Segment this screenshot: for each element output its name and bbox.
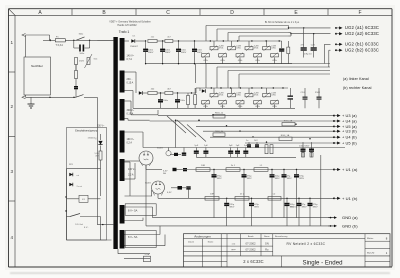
svg-text:5U4G: 5U4G (157, 147, 163, 149)
diode D7 (139, 91, 148, 95)
bus U-line 3 (196, 125, 334, 127)
bus trimmer b bottom (161, 107, 296, 109)
junction f2 (160, 92, 161, 93)
svg-text:GND (b): GND (b) (342, 224, 358, 229)
title block h-line 4 (184, 255, 391, 257)
trimmer Pb lower 2 (219, 100, 227, 109)
wire fuse to trafo (65, 39, 113, 41)
wire tube V1 gnd (145, 165, 147, 226)
resistor R20 (194, 88, 197, 108)
diode LED1 (67, 169, 80, 182)
junction bus a 3 (251, 40, 252, 41)
svg-text:erst: erst (232, 242, 236, 245)
wire delay to trafo (100, 217, 102, 241)
title block v-lines (203, 234, 366, 268)
bus merge a1 (288, 26, 331, 30)
junction delay bottom (65, 210, 66, 211)
svg-text:Bearb: Bearb (248, 235, 254, 238)
svg-text:630V: 630V (181, 52, 187, 54)
capacitor Cm3 (203, 145, 208, 157)
wire seg4 tap (125, 132, 144, 148)
output arrow + U5 (b) (333, 141, 340, 144)
svg-text:RG2_1A: RG2_1A (284, 120, 293, 123)
switch S2 on mains (76, 37, 85, 40)
wire heater a2 (125, 218, 144, 221)
svg-text:UG2 (a2) 6C33C: UG2 (a2) 6C33C (345, 31, 379, 36)
junction u1 (175, 120, 176, 121)
resistor Rm4 (310, 153, 313, 158)
capacitor Ca end (279, 48, 284, 63)
resistor Ra2 (226, 164, 240, 172)
svg-text:Trafo 1: Trafo 1 (119, 30, 130, 34)
transformer secondary winding S3 (120, 99, 125, 121)
diode D4 (200, 88, 205, 93)
label 140V chain (0, 0, 1, 1)
resistor R3 (94, 146, 102, 161)
trimmer Pb lower 4 (254, 100, 262, 109)
junction bus a 4 (266, 40, 267, 41)
capacitor C12 chain a (176, 41, 187, 64)
wire switch to corner (84, 96, 97, 98)
svg-text:+ U4 (b): + U4 (b) (342, 135, 357, 140)
svg-text:2x rot: 2x rot (77, 185, 83, 188)
transformer secondary winding S1 (120, 38, 125, 61)
junction bus a 1 (223, 40, 224, 41)
svg-text:RG3_1k: RG3_1k (215, 131, 224, 133)
svg-text:6 V~: 6 V~ (84, 227, 89, 229)
trimmer Pa upper 1 (210, 41, 224, 51)
svg-text:1N4007: 1N4007 (130, 46, 138, 48)
capacitor Cb2 (315, 88, 322, 108)
output arrow GND b (328, 225, 337, 228)
svg-text:100n: 100n (79, 53, 85, 55)
svg-text:mKp 10: mKp 10 (304, 53, 312, 55)
winding label 230V (127, 78, 134, 85)
svg-text:+ U5 (b): + U5 (b) (342, 140, 357, 145)
mains filter box Netzfilter (24, 57, 51, 95)
transformer secondary winding S7 (120, 230, 125, 249)
resistor Rb2 (235, 193, 249, 201)
trimmer Pb upper 3 (245, 88, 259, 98)
junction a (73, 40, 74, 41)
wire seg3 tap top (125, 101, 159, 115)
svg-text:(a) linker Kanal: (a) linker Kanal (343, 77, 369, 81)
wire mains lower (26, 96, 76, 98)
output arrow + U5 (a) (333, 125, 340, 128)
svg-text:385V: 385V (275, 178, 281, 180)
svg-text:D: D (230, 10, 234, 16)
bus UG2a4 (239, 36, 289, 41)
junction b4 (251, 87, 252, 88)
cap C2 (74, 86, 78, 89)
title block h-line 3 (184, 251, 273, 253)
junction relay (65, 196, 66, 197)
bus GND b (146, 225, 335, 227)
capacitor C11 chain a (160, 41, 171, 64)
title block right col lines (365, 241, 390, 261)
wire delay v2 (66, 196, 68, 226)
bus trimmer a bottom (200, 63, 292, 65)
output arrow UG2 a2 (335, 32, 342, 35)
column divider 2 (135, 9, 137, 16)
bus UG2a1 (206, 26, 289, 42)
svg-text:RV Netzteil 2 x 6C33C: RV Netzteil 2 x 6C33C (287, 242, 326, 246)
junction b5 (261, 87, 262, 88)
output arrow + U4 (a) (333, 119, 340, 122)
trimmer Pb lower 3 (236, 100, 244, 109)
trimmer Pb upper 2 (228, 88, 242, 98)
junction d (73, 97, 74, 98)
junction bus a 0 (210, 40, 211, 41)
svg-text:Einschaltverzögerung: Einschaltverzögerung (75, 130, 98, 133)
capacitor Ca 296.5 (294, 169, 305, 218)
title block h-line 5 (184, 260, 228, 262)
capacitor Cn1 (246, 140, 251, 147)
capacitor C10 chain a (143, 41, 154, 64)
resistor R22 (165, 88, 173, 94)
wire right riser (96, 97, 98, 224)
bus GND a (153, 217, 335, 219)
resistor R2b (75, 61, 85, 79)
junction b3 (240, 87, 241, 88)
svg-text:Name: Name (264, 236, 270, 238)
svg-text:385V: 385V (247, 178, 253, 180)
junction b7 (282, 87, 283, 88)
wire bus a drop (195, 64, 197, 83)
output arrow UG2 b1 (335, 43, 342, 46)
capacitor Cbx 287 (285, 198, 296, 226)
svg-text:07-2002: 07-2002 (245, 242, 256, 246)
svg-text:385V: 385V (254, 207, 260, 209)
svg-text:C: C (166, 10, 170, 16)
heater labels a (163, 170, 168, 175)
junction e1 (145, 40, 146, 41)
svg-text:385V: 385V (313, 207, 319, 209)
svg-text:Netzfilter: Netzfilter (31, 64, 43, 68)
wire cap to lower (75, 89, 77, 97)
svg-text:0,15 A: 0,15 A (127, 82, 134, 85)
svg-text:140 V~: 140 V~ (127, 55, 135, 58)
output arrow U1 a (333, 168, 340, 171)
diagonal wire 2 (177, 120, 196, 137)
svg-text:3: 3 (11, 169, 14, 174)
wire seg2 rise to bus (195, 88, 197, 93)
paper edge shadow (10, 272, 390, 274)
svg-text:385V: 385V (217, 178, 223, 180)
bus U-line 2 (150, 120, 334, 122)
capacitor C21 (311, 33, 317, 58)
riser u net 2 (175, 120, 177, 147)
title block h-line 1 (184, 238, 366, 240)
column divider 3 (199, 9, 201, 16)
wire box bottom left (25, 95, 27, 97)
svg-text:8 V~ 5A: 8 V~ 5A (128, 235, 138, 239)
bus chain mid (143, 147, 345, 149)
winding label 100V (128, 168, 136, 177)
wire mains upper (26, 34, 50, 36)
wire trafo bottom 1 (118, 253, 150, 255)
wire delay v1 (100, 160, 102, 196)
trimmer Pb lower 1 (202, 100, 210, 109)
column divider 5 (327, 9, 329, 16)
switch S1 (76, 95, 84, 98)
resistor R10 (148, 36, 157, 42)
capacitor Cbx 251.5 (249, 198, 260, 226)
svg-text:(+): (+) (95, 138, 98, 140)
bus UG2b3 (228, 71, 330, 89)
svg-text:10R: 10R (201, 165, 205, 167)
resistor R11 (165, 36, 173, 42)
wire delay across (67, 239, 112, 241)
svg-text:Bezeichnung: Bezeichnung (275, 236, 288, 238)
svg-text:8 V~ 5A: 8 V~ 5A (128, 208, 138, 212)
svg-text:230...: 230... (127, 78, 133, 81)
svg-text:UG2 (b1) 6C33C: UG2 (b1) 6C33C (345, 42, 379, 47)
wire f2 (157, 92, 165, 94)
wire heater a1 (125, 206, 153, 208)
heater labels b (167, 192, 172, 194)
wire delay h1 (67, 168, 101, 170)
svg-text:2 x 6C33C: 2 x 6C33C (243, 259, 263, 264)
junction bus a 2 (237, 40, 238, 41)
svg-text:Änderungen: Änderungen (194, 235, 211, 239)
svg-text:100n 630V: 100n 630V (299, 145, 310, 147)
capacitor Cf2 (175, 93, 186, 108)
wire seg2 tap bottom (125, 91, 161, 109)
capacitor Ca 214 (212, 169, 223, 218)
diagonal wire 1 (167, 116, 186, 133)
bus UG2b4 (239, 74, 330, 88)
capacitor Cm1 (182, 148, 186, 156)
wire riser left (25, 35, 27, 57)
svg-text:+ U3 (a): + U3 (a) (342, 113, 357, 118)
junction b6 (273, 87, 274, 88)
trimmer Pa lower 1 (202, 53, 210, 64)
primary bottom junction (102, 224, 103, 225)
tube V2 (152, 181, 165, 196)
capacitor Cm7 (299, 142, 310, 157)
wire tube V2 anode (125, 162, 153, 196)
resistor RG3 (282, 120, 295, 126)
bus UG2b2 (217, 67, 330, 88)
resistor R21 (148, 88, 157, 94)
capacitor Ca 284 (282, 169, 293, 218)
fuse F1 (55, 37, 65, 42)
tube V1 cathode wire (146, 165, 162, 170)
junction c (49, 97, 50, 98)
svg-text:Datum: Datum (188, 240, 194, 243)
junction dots U-lines (198, 114, 310, 143)
relay coil Rel1 (79, 195, 88, 202)
capacitor Cb pair (186, 186, 190, 198)
wire to fuse (43, 39, 55, 41)
junction b (89, 40, 90, 41)
bus chain mid bottom (196, 156, 296, 158)
capacitor Cbx 226.7 (224, 198, 235, 226)
capacitor C13 chain a (192, 41, 203, 64)
row divider 1 (9, 71, 16, 73)
svg-text:0,15 A: 0,15 A (127, 113, 134, 116)
svg-text:300 V~: 300 V~ (127, 109, 135, 112)
resistor RG4 (279, 134, 292, 140)
title block h-line 2 (184, 245, 273, 247)
wire heater b2 (125, 235, 166, 246)
winding label 190V (127, 138, 135, 145)
wire delay bottom (66, 226, 68, 240)
svg-text:gepr: gepr (231, 248, 235, 251)
junction b1 (220, 87, 221, 88)
wire e2 (157, 40, 165, 42)
transformer secondary winding S6 (120, 205, 125, 224)
varistor arrow (85, 54, 99, 68)
capacitor Cm8 (309, 142, 314, 157)
bus UG2b1 (206, 64, 330, 89)
svg-text:100n: 100n (180, 100, 186, 102)
inductor Lb1 (268, 194, 281, 201)
ground symbol (28, 104, 35, 108)
heater fuse box (144, 253, 151, 262)
svg-text:1kV: 1kV (254, 140, 258, 142)
trimmer Pb lower 5 (271, 100, 279, 109)
bus chain a bottom (145, 63, 207, 64)
svg-text:Blatt-Nr:: Blatt-Nr: (367, 251, 375, 254)
resistor RG1 (213, 112, 225, 118)
svg-text:Bl. 66 mit Schalter ab ca. 2 x: Bl. 66 mit Schalter ab ca. 2 x 3 µs (265, 21, 300, 24)
title text Blaetter (367, 237, 388, 241)
transformer secondary winding S5 (120, 159, 125, 181)
junction fuse in (49, 39, 51, 41)
svg-text:10R: 10R (210, 194, 214, 196)
svg-text:GN: GN (265, 242, 269, 246)
svg-text:630V: 630V (165, 52, 171, 54)
svg-text:4: 4 (11, 235, 14, 240)
resistor RG2 (213, 131, 225, 136)
primary tap wire top (97, 39, 113, 41)
wire seg2 tap top (125, 71, 137, 73)
winding label 8V a (125, 204, 156, 216)
wire f3 (173, 92, 196, 94)
diode LED2 (67, 182, 83, 196)
junction b2 (230, 87, 231, 88)
diode D5 (170, 153, 181, 156)
chain a components left (173, 168, 188, 172)
svg-text:Netz: Netz (79, 33, 84, 36)
bus trimmer b top (200, 87, 288, 89)
trimmer Pa upper 3 (245, 41, 259, 51)
svg-text:6,3V: 6,3V (167, 192, 172, 194)
wire chain a corner (281, 41, 283, 48)
svg-text:Name: Name (208, 241, 214, 243)
svg-text:105 Grd: 105 Grd (75, 224, 84, 226)
mains connector arrows (22, 34, 26, 99)
diode D3 (130, 36, 145, 48)
svg-text:(b) rechter Kanal: (b) rechter Kanal (343, 86, 372, 90)
output arrow GND a (328, 216, 337, 219)
trimmer Pa upper 4 (263, 41, 277, 51)
capacitor Cm5 (235, 145, 240, 157)
column divider 4 (263, 9, 265, 16)
capacitor Cm6 (243, 145, 248, 157)
capacitor Cm2 (194, 145, 199, 157)
svg-text:385V: 385V (299, 178, 305, 180)
capacitor Cn2 (254, 140, 259, 147)
bus chain U1b (166, 197, 335, 199)
wire e3 (173, 40, 200, 42)
wire cap drop (75, 79, 77, 87)
svg-text:Ro: Ro (265, 247, 269, 251)
svg-text:+ U4 (a): + U4 (a) (342, 118, 357, 123)
svg-text:0,7 A: 0,7 A (127, 58, 133, 61)
wire heater riser b (159, 226, 161, 235)
diode D6 (171, 186, 186, 190)
svg-text:385V: 385V (302, 207, 308, 209)
svg-text:230 V~: 230 V~ (97, 126, 105, 128)
tube V2 cathode wire (158, 194, 166, 198)
relay contact (67, 214, 101, 217)
capacitor Ca 244 (242, 169, 253, 218)
svg-text:F: F (358, 10, 361, 16)
svg-text:385V: 385V (229, 207, 235, 209)
inductor La1 (254, 165, 268, 172)
svg-text:RG6_1A: RG6_1A (281, 134, 290, 137)
capacitor Cbx 299 (297, 198, 308, 226)
junction bus a 5 (279, 40, 280, 41)
capacitor Cb1 (301, 88, 308, 108)
bus UG2a3 (228, 33, 289, 42)
trimmer Pa lower 3 (236, 53, 244, 64)
wire chain a to trimmer bus (200, 40, 282, 42)
resistor Rm2 (270, 145, 273, 154)
cap C1 across mains (74, 40, 90, 55)
svg-text:+ U3 (b): + U3 (b) (342, 129, 357, 134)
wire tube V1 anode (125, 161, 140, 179)
svg-text:385V: 385V (287, 178, 293, 180)
capacitor Cf1 (158, 93, 169, 108)
svg-text:+ U1 (b): + U1 (b) (342, 196, 358, 201)
row divider 2 (9, 136, 16, 138)
junction u2 (198, 120, 199, 121)
wire riser fuse (49, 35, 51, 40)
resistor Rb1 (205, 194, 219, 201)
capacitor C20 (301, 27, 307, 57)
diagonal wire 3 (187, 125, 206, 142)
output arrow UG2 a1 (335, 26, 342, 29)
svg-text:Blätter:: Blätter: (367, 237, 374, 240)
wire heater riser (152, 207, 154, 218)
wire heater b1 (125, 234, 161, 236)
wire seg1 top tap (125, 40, 130, 42)
component stub e (75, 65, 77, 71)
delay circuit box (67, 128, 107, 241)
wire seg2 riser (135, 72, 137, 93)
bus U-line 6 (245, 142, 334, 144)
wire relay right (88, 198, 101, 200)
svg-text:190 V~: 190 V~ (127, 138, 135, 141)
riser right (320, 155, 322, 226)
svg-text:350V: 350V (315, 92, 321, 94)
capacitor Ca 272 (270, 169, 281, 218)
svg-text:RG5_1A: RG5_1A (290, 206, 298, 209)
resistor Ra end (287, 41, 290, 64)
svg-text:GND (a): GND (a) (342, 215, 358, 220)
primary tap wire bottom (97, 224, 113, 226)
svg-text:UG2 (b2) 6C33C: UG2 (b2) 6C33C (345, 48, 379, 53)
svg-text:rot: rot (77, 174, 80, 177)
bus UG2a2 (217, 29, 289, 41)
bus b riser 2 (329, 50, 331, 67)
wire trafo bottom 3 (124, 258, 150, 260)
title block outer (184, 234, 391, 267)
